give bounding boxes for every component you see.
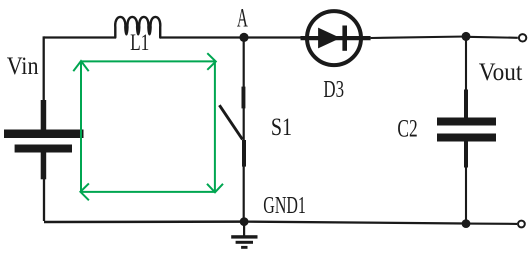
wire: left vertical lower (battery - to bottom corner): [43, 179, 45, 221]
capacitor C2: [437, 90, 496, 168]
green current loop: right side (arrow down): [207, 62, 223, 193]
svg-text:S1: S1: [271, 113, 292, 141]
svg-text:C2: C2: [397, 114, 417, 142]
wire: output top node to Vout+ terminal: [466, 37, 518, 38]
svg-text:Vin: Vin: [7, 51, 39, 80]
svg-text:A: A: [237, 2, 248, 32]
inductor L1: [115, 17, 160, 38]
wire: left vertical upper (corner to battery +): [43, 36, 45, 101]
wire: top horizontal (Vin corner to inductor L1): [44, 36, 116, 38]
node: output top junction dot: [462, 32, 471, 41]
svg-text:Vout: Vout: [479, 59, 523, 86]
battery Vin: [4, 100, 84, 179]
wire: switch S1 vertical (node A to bottom junction): [243, 38, 245, 222]
svg-text:GND1: GND1: [263, 192, 306, 219]
terminal: Vout + (open circle): [519, 34, 526, 41]
wire: bottom (switch junction to output bottom junction): [244, 222, 466, 224]
diode D3: [301, 11, 371, 65]
node A (junction dot): [239, 33, 248, 42]
green current loop: top side (arrow right): [81, 53, 216, 70]
green current loop: left side (arrow up): [73, 61, 88, 192]
wire: diode cathode to output top node: [371, 37, 466, 39]
node: bottom switch junction dot: [240, 217, 249, 226]
green current loop: bottom side (arrow left): [80, 183, 215, 200]
svg-text:L1: L1: [130, 30, 149, 56]
switch S1: [219, 87, 246, 167]
terminal: Vout - (open circle): [518, 221, 525, 228]
wire: capacitor C2 vertical upper (output node to C2): [465, 37, 467, 91]
wire: bottom (left corner to switch junction): [44, 220, 244, 223]
node: output bottom junction dot: [462, 219, 471, 228]
wire: capacitor C2 vertical lower (C2 to output bottom junction): [465, 168, 467, 224]
svg-text:D3: D3: [323, 76, 344, 103]
wire: output bottom junction to Vout- terminal: [466, 223, 517, 225]
wire: inductor to node A: [160, 36, 244, 38]
ground GND1: [231, 222, 257, 249]
wire: node A to diode D3 anode: [244, 36, 304, 38]
